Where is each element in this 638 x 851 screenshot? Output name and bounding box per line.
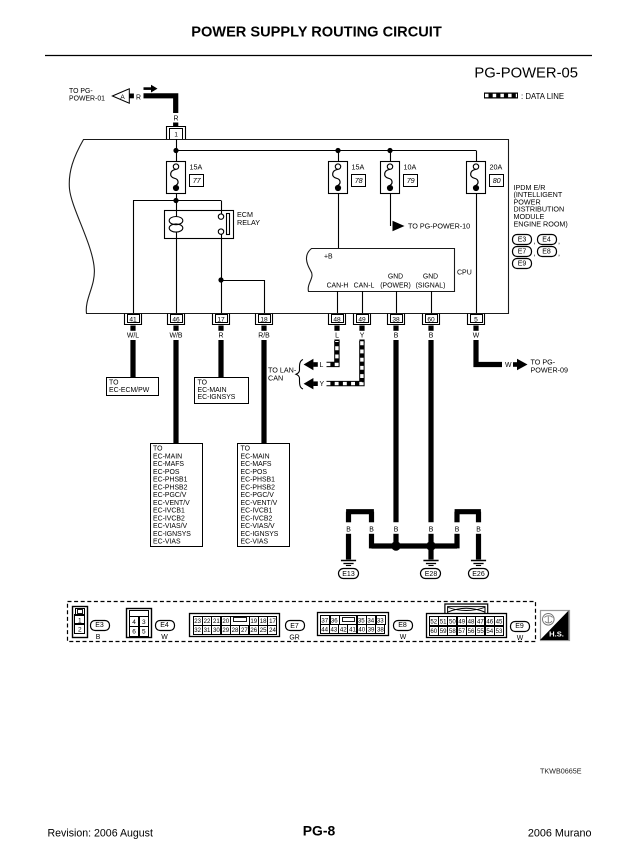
svg-text:POWER SUPPLY ROUTING CIRCUIT: POWER SUPPLY ROUTING CIRCUIT	[191, 25, 442, 41]
svg-text:,: ,	[558, 237, 560, 246]
svg-text:23: 23	[194, 618, 201, 625]
svg-text:41: 41	[349, 626, 356, 633]
svg-text:EC-MAFS: EC-MAFS	[241, 461, 272, 468]
svg-text:EC-MAIN: EC-MAIN	[153, 453, 182, 460]
svg-text:48: 48	[468, 619, 475, 626]
svg-text:EC-POS: EC-POS	[241, 469, 268, 476]
svg-text:17: 17	[217, 316, 225, 323]
svg-text:CAN-L: CAN-L	[354, 283, 375, 290]
svg-text:43: 43	[331, 626, 338, 633]
svg-text:46: 46	[172, 316, 180, 323]
svg-text:77: 77	[193, 176, 202, 185]
svg-text:2: 2	[78, 627, 82, 634]
svg-text:19: 19	[250, 618, 257, 625]
svg-text:37: 37	[321, 617, 328, 624]
svg-text:EC-PHSB2: EC-PHSB2	[153, 484, 188, 491]
svg-text:TO PG-POWER-10: TO PG-POWER-10	[408, 222, 470, 231]
svg-text:ENGINE ROOM): ENGINE ROOM)	[514, 219, 568, 228]
svg-text:B: B	[394, 526, 399, 533]
svg-text:,: ,	[534, 249, 536, 258]
svg-text:49: 49	[458, 619, 465, 626]
svg-text:E7: E7	[518, 249, 527, 256]
svg-text:EC-VENT/V: EC-VENT/V	[153, 500, 190, 507]
svg-text:B: B	[369, 526, 374, 533]
svg-text:RELAY: RELAY	[237, 218, 260, 227]
svg-text:79: 79	[407, 176, 415, 185]
svg-text:27: 27	[241, 627, 248, 634]
svg-text:L: L	[335, 333, 339, 340]
svg-text:42: 42	[340, 626, 347, 633]
svg-text:58: 58	[449, 628, 456, 635]
svg-text:EC-VIAS/V: EC-VIAS/V	[153, 523, 187, 530]
svg-text:18: 18	[260, 618, 267, 625]
svg-text:33: 33	[377, 617, 384, 624]
svg-text:38: 38	[377, 626, 384, 633]
svg-text:E8: E8	[542, 249, 551, 256]
svg-text:EC-IVCB2: EC-IVCB2	[153, 515, 185, 522]
svg-text:R: R	[219, 333, 224, 340]
svg-text:EC-IVCB1: EC-IVCB1	[153, 508, 185, 515]
svg-text:57: 57	[458, 628, 465, 635]
svg-text:48: 48	[333, 316, 341, 323]
svg-text:B: B	[394, 333, 399, 340]
svg-text:B: B	[429, 333, 434, 340]
svg-text:35: 35	[358, 617, 365, 624]
svg-text:E7: E7	[290, 623, 299, 630]
svg-text:EC-PHSB1: EC-PHSB1	[241, 477, 276, 484]
svg-text:EC-IVCB2: EC-IVCB2	[241, 515, 273, 522]
svg-text:20: 20	[222, 618, 229, 625]
svg-text:20A: 20A	[490, 163, 503, 172]
svg-text:60: 60	[430, 628, 437, 635]
svg-text:EC-MAFS: EC-MAFS	[153, 461, 184, 468]
svg-text:TKWB0665E: TKWB0665E	[540, 767, 582, 776]
svg-text:EC-VIAS/V: EC-VIAS/V	[241, 523, 275, 530]
svg-text:4: 4	[132, 619, 136, 626]
svg-text:36: 36	[331, 617, 338, 624]
svg-text:29: 29	[222, 627, 229, 634]
svg-text:B: B	[455, 526, 460, 533]
svg-text:80: 80	[493, 176, 501, 185]
svg-text:PG-POWER-05: PG-POWER-05	[474, 66, 578, 82]
svg-text:B: B	[429, 526, 434, 533]
svg-text:49: 49	[358, 316, 366, 323]
svg-text:R: R	[174, 116, 179, 123]
svg-text:15A: 15A	[190, 163, 203, 172]
svg-text:E9: E9	[518, 261, 527, 268]
svg-text:52: 52	[430, 619, 437, 626]
svg-text:W: W	[400, 634, 407, 641]
svg-text:TO PG-: TO PG-	[69, 88, 93, 95]
svg-text:EC-VENT/V: EC-VENT/V	[241, 500, 278, 507]
svg-text:EC-IGNSYS: EC-IGNSYS	[198, 394, 236, 401]
svg-text:W/B: W/B	[169, 333, 182, 340]
svg-text:W/L: W/L	[127, 333, 139, 340]
svg-text:45: 45	[496, 619, 503, 626]
svg-text:EC-VIAS: EC-VIAS	[153, 539, 181, 546]
svg-text:(POWER): (POWER)	[380, 283, 411, 290]
svg-text:EC-POS: EC-POS	[153, 469, 180, 476]
svg-text:EC-VIAS: EC-VIAS	[241, 539, 269, 546]
svg-text:GR: GR	[289, 635, 299, 642]
svg-text:56: 56	[468, 628, 475, 635]
svg-text:E4: E4	[542, 237, 551, 244]
svg-text:32: 32	[194, 627, 201, 634]
svg-text:39: 39	[368, 626, 375, 633]
svg-text:W: W	[517, 635, 524, 642]
svg-text:EC-MAIN: EC-MAIN	[198, 387, 227, 394]
svg-text:18: 18	[260, 316, 268, 323]
svg-text:51: 51	[440, 619, 447, 626]
svg-text:E13: E13	[342, 571, 355, 578]
svg-text:55: 55	[477, 628, 484, 635]
svg-text:GND: GND	[423, 274, 438, 281]
svg-text:Y: Y	[320, 381, 325, 388]
svg-text:B: B	[476, 526, 481, 533]
svg-text:B: B	[96, 634, 101, 641]
svg-text:60: 60	[427, 316, 435, 323]
svg-text:E8: E8	[398, 622, 407, 629]
svg-text:EC-PGC/V: EC-PGC/V	[153, 492, 187, 499]
svg-text:,: ,	[534, 237, 536, 246]
svg-text:3: 3	[142, 619, 146, 626]
svg-text:CPU: CPU	[457, 270, 472, 277]
svg-text:EC-PHSB1: EC-PHSB1	[153, 477, 188, 484]
svg-text:W: W	[473, 333, 480, 340]
svg-text:44: 44	[321, 626, 328, 633]
svg-text:1: 1	[78, 617, 82, 624]
svg-text:TO: TO	[198, 380, 208, 387]
svg-text:L: L	[320, 362, 324, 369]
svg-text:TO: TO	[153, 446, 163, 453]
svg-text:21: 21	[213, 618, 220, 625]
svg-text:15A: 15A	[352, 163, 365, 172]
svg-text:40: 40	[358, 626, 365, 633]
svg-text:E28: E28	[425, 571, 438, 578]
svg-text:41: 41	[129, 316, 137, 323]
svg-text:38: 38	[392, 316, 400, 323]
svg-text:(SIGNAL): (SIGNAL)	[416, 283, 446, 290]
svg-text:R: R	[136, 95, 141, 102]
svg-text:26: 26	[250, 627, 257, 634]
svg-text:EC-MAIN: EC-MAIN	[241, 453, 270, 460]
svg-text:POWER-01: POWER-01	[69, 96, 105, 103]
svg-text:PG-8: PG-8	[303, 823, 336, 839]
svg-text:31: 31	[204, 627, 211, 634]
svg-text:CAN: CAN	[268, 373, 283, 382]
svg-text:W: W	[161, 634, 168, 641]
svg-text:: DATA LINE: : DATA LINE	[521, 92, 564, 101]
svg-text:H.S.: H.S.	[549, 630, 564, 639]
svg-text:EC-IGNSYS: EC-IGNSYS	[241, 531, 279, 538]
svg-text:46: 46	[486, 619, 493, 626]
svg-text:Revision: 2006 August: Revision: 2006 August	[48, 828, 153, 840]
svg-text:34: 34	[367, 617, 374, 624]
svg-text:TO: TO	[241, 446, 251, 453]
svg-text:E3: E3	[95, 622, 104, 629]
svg-text:E9: E9	[515, 623, 524, 630]
svg-text:Y: Y	[360, 333, 365, 340]
svg-text:E3: E3	[518, 237, 527, 244]
svg-text:EC-ECM/PW: EC-ECM/PW	[109, 387, 150, 394]
svg-text:6: 6	[132, 629, 136, 636]
svg-text:TO: TO	[109, 380, 119, 387]
svg-text:24: 24	[269, 627, 276, 634]
svg-text:5: 5	[474, 316, 478, 323]
svg-text:CAN-H: CAN-H	[327, 283, 349, 290]
svg-text:+B: +B	[324, 254, 333, 261]
svg-text:17: 17	[269, 618, 276, 625]
svg-text:2006 Murano: 2006 Murano	[528, 828, 592, 840]
svg-text:1: 1	[174, 131, 178, 138]
svg-text:W: W	[505, 362, 512, 369]
svg-text:EC-PHSB2: EC-PHSB2	[241, 484, 276, 491]
svg-text:GND: GND	[388, 274, 403, 281]
svg-text:POWER-09: POWER-09	[531, 365, 569, 374]
svg-text:47: 47	[477, 619, 484, 626]
svg-text:5: 5	[142, 629, 146, 636]
svg-text:EC-PGC/V: EC-PGC/V	[241, 492, 275, 499]
svg-text:28: 28	[232, 627, 239, 634]
svg-text:78: 78	[355, 176, 363, 185]
svg-text:EC-IVCB1: EC-IVCB1	[241, 508, 273, 515]
svg-text:54: 54	[486, 628, 493, 635]
svg-text:R/B: R/B	[258, 333, 270, 340]
svg-text:30: 30	[213, 627, 220, 634]
svg-text:EC-IGNSYS: EC-IGNSYS	[153, 531, 191, 538]
svg-text:E26: E26	[472, 571, 485, 578]
svg-text:25: 25	[260, 627, 267, 634]
svg-text:B: B	[346, 526, 351, 533]
svg-text:E4: E4	[160, 622, 169, 629]
svg-text:22: 22	[204, 618, 211, 625]
svg-text:A: A	[120, 94, 125, 101]
svg-text:,: ,	[558, 249, 560, 258]
svg-text:59: 59	[440, 628, 447, 635]
svg-text:10A: 10A	[404, 163, 417, 172]
svg-text:50: 50	[449, 619, 456, 626]
svg-text:53: 53	[496, 628, 503, 635]
